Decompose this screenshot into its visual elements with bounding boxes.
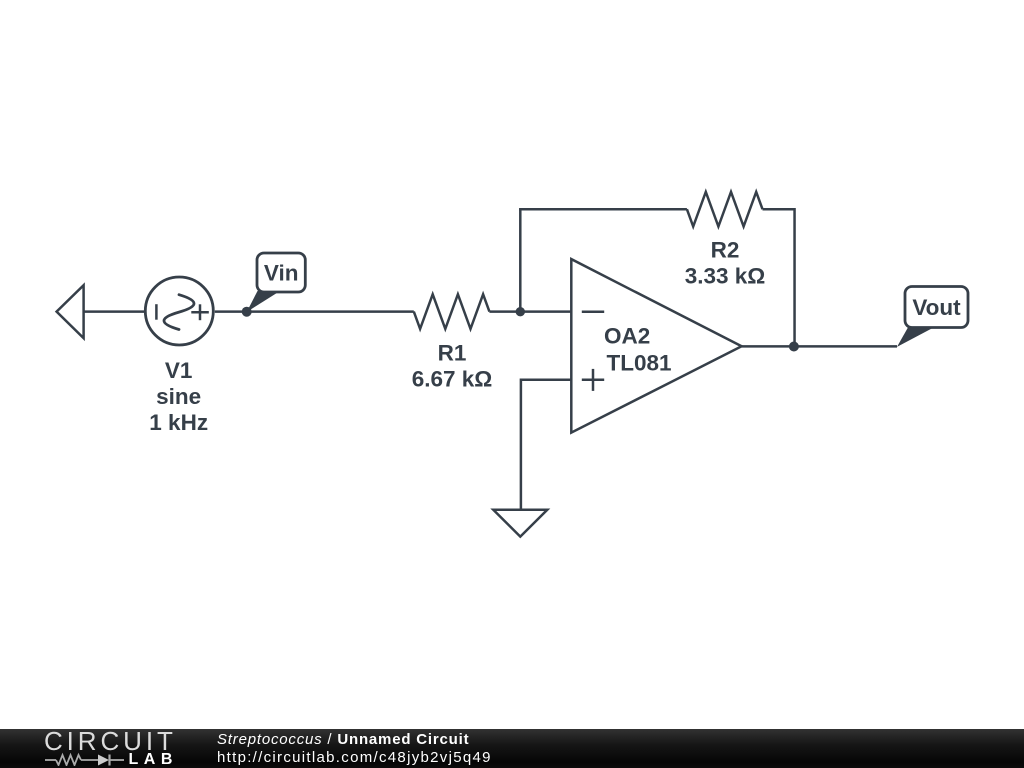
resistor R2 (687, 192, 763, 227)
node junction Vin (242, 307, 252, 317)
wire plus input (521, 380, 571, 510)
svg-text:Vin: Vin (264, 261, 299, 286)
net flag box Vout (905, 287, 968, 328)
op-amp OA2 (571, 259, 741, 433)
footer title line (217, 732, 469, 747)
CircuitLab logo resistor-diode glyph (44, 752, 130, 766)
svg-text:V1: V1 (165, 358, 193, 383)
svg-text:sine: sine (156, 384, 201, 409)
label V1 sine 1 kHz (149, 358, 208, 435)
label R1 value (412, 341, 493, 392)
net flag pointer Vin (247, 291, 280, 312)
node junction inverting input (516, 307, 525, 316)
svg-text:1 kHz: 1 kHz (149, 410, 208, 435)
net flag pointer Vout (897, 327, 936, 347)
voltage source V1 (145, 277, 213, 345)
CircuitLab logo wordmark (44, 728, 177, 754)
net flag box Vin (257, 253, 305, 292)
footer url line (217, 750, 492, 765)
svg-text:3.33 kΩ: 3.33 kΩ (685, 264, 766, 289)
wire feedback top (519, 208, 687, 211)
svg-text:6.67 kΩ: 6.67 kΩ (412, 366, 493, 391)
op-amp plus pin mark (582, 369, 604, 391)
wire R2-to-corner (763, 209, 795, 346)
svg-text:OA2: OA2 (604, 324, 650, 349)
resistor R1 (414, 294, 490, 329)
CircuitLab logo LAB (129, 752, 178, 768)
op-amp minus pin mark (582, 310, 604, 313)
wire ground-to-V1 (84, 310, 146, 313)
label OA2 TL081 (604, 324, 672, 376)
svg-text:TL081: TL081 (607, 351, 672, 376)
wire V1-to-R1 (215, 310, 414, 313)
wire R1-to-opamp (489, 310, 571, 313)
wire output (742, 345, 897, 348)
footer bar (0, 729, 1024, 768)
svg-text:R1: R1 (438, 341, 467, 366)
ground (rotated, left) (57, 285, 84, 338)
ground (bottom) (493, 510, 547, 537)
node junction output (789, 342, 799, 352)
label R2 value (685, 238, 766, 289)
wire feedback vertical left (519, 209, 522, 311)
svg-text:R2: R2 (711, 238, 740, 263)
svg-text:Vout: Vout (912, 295, 961, 320)
